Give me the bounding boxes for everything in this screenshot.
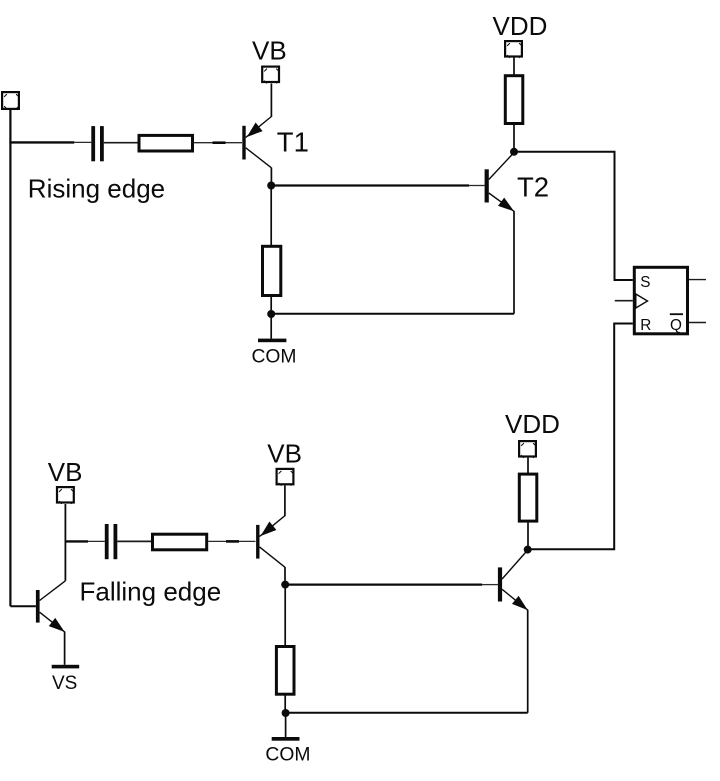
resistor R3 (vertical, VDD top) bbox=[505, 76, 523, 124]
wire node B to T2 emitter leg bbox=[271, 313, 514, 315]
svg-text:COM: COM bbox=[252, 346, 297, 367]
wire Q3 collector down to node D bbox=[284, 567, 286, 585]
wire latch R input from node F (left then down then left) bbox=[528, 324, 633, 550]
wire node D to Q5 base bbox=[285, 583, 482, 585]
svg-text:VB: VB bbox=[267, 438, 302, 468]
latch U1 (SR flip-flop box) bbox=[634, 267, 687, 334]
terminal VDD (bottom) bbox=[519, 441, 536, 458]
wire VB node to capacitor C2 bbox=[65, 540, 88, 542]
svg-text:Q: Q bbox=[670, 317, 682, 334]
wire C2 to R4 bbox=[117, 540, 151, 542]
svg-text:S: S bbox=[640, 274, 650, 291]
node D (junction below Q3) bbox=[281, 581, 289, 589]
svg-text:VB: VB bbox=[252, 36, 287, 66]
node C (junction at T2 collector / VDD resistor) bbox=[510, 148, 518, 156]
wire Q5 emitter down to node E rail bbox=[527, 610, 529, 713]
resistor R5 (vertical, falling edge to COM) bbox=[276, 647, 294, 695]
wire node E down to ground bbox=[285, 713, 287, 737]
resistor R1 (horizontal, rising edge) bbox=[139, 135, 193, 151]
wire node A down to R2 bbox=[270, 186, 272, 246]
wire R6 to node F bbox=[527, 523, 529, 550]
svg-text:T1: T1 bbox=[277, 126, 309, 157]
wire Q4 emitter down to VS ground bbox=[64, 632, 66, 665]
transistor Q5 (NPN, bottom right) bbox=[498, 550, 528, 610]
svg-text:VDD: VDD bbox=[493, 11, 548, 41]
transistor Q3 (PNP, falling edge) bbox=[256, 516, 285, 568]
terminal VDD (top) bbox=[505, 41, 522, 58]
wire T1 collector down to node A bbox=[270, 168, 272, 186]
svg-text:COM: COM bbox=[265, 745, 310, 766]
wire output stub Q (top) bbox=[689, 279, 706, 281]
wire node E to Q5 emitter leg bbox=[286, 712, 528, 714]
wire node C to latch S input (right then down then right) bbox=[514, 152, 633, 280]
resistor R4 (horizontal, falling edge) bbox=[153, 534, 207, 550]
transistor T1 (PNP) bbox=[242, 117, 271, 168]
wire VDD terminal to R6 bbox=[527, 458, 529, 473]
wire node A to T2 base bbox=[271, 184, 469, 186]
node A (junction below T1) bbox=[267, 182, 275, 190]
capacitor C2 bbox=[105, 524, 118, 559]
wire node B down to ground bbox=[270, 314, 272, 339]
wire R5 to node E bbox=[284, 694, 286, 713]
wire T1 emitter up to VB terminal bbox=[270, 84, 272, 117]
ground COM (falling edge) bbox=[272, 737, 300, 741]
svg-text:T2: T2 bbox=[517, 172, 549, 203]
resistor R2 (vertical, to COM) bbox=[263, 246, 281, 295]
wire R1 to T1 base bbox=[194, 142, 242, 144]
wire C1 to R1 bbox=[104, 142, 138, 144]
wire base of Q4 from long vertical bbox=[10, 605, 36, 607]
wire VB terminal down to Q4 collector bbox=[64, 504, 66, 581]
svg-text:VB: VB bbox=[48, 457, 83, 487]
capacitor C1 bbox=[91, 126, 104, 161]
wire T2 emitter down to node B rail bbox=[513, 211, 515, 314]
svg-text:VDD: VDD bbox=[505, 409, 560, 439]
node B (junction above COM) bbox=[267, 310, 275, 318]
wire node D down to R5 bbox=[284, 585, 286, 646]
terminal VB (falling edge, right) bbox=[277, 469, 294, 486]
wire clock stub bbox=[615, 300, 633, 302]
svg-text:R: R bbox=[640, 317, 651, 334]
svg-text:Rising edge: Rising edge bbox=[28, 173, 165, 203]
wire VDD terminal to R3 bbox=[513, 58, 515, 76]
wire output stub Qbar (bottom) bbox=[689, 322, 706, 324]
wire long vertical from input down to falling-edge transistor base bbox=[9, 110, 11, 606]
terminal IN (input port, top left) bbox=[2, 92, 19, 109]
svg-text:Falling edge: Falling edge bbox=[80, 576, 222, 606]
wire R2 to node B bbox=[270, 296, 272, 315]
node E (junction above COM, falling edge) bbox=[282, 709, 290, 717]
node F (junction at Q5 collector / VDD resistor) bbox=[524, 546, 532, 554]
ground COM (rising edge) bbox=[258, 339, 286, 343]
terminal VB (falling edge, left) bbox=[57, 487, 74, 504]
wire R3 to node C bbox=[513, 125, 515, 152]
ground VS bbox=[52, 665, 79, 669]
clock input triangle bbox=[636, 294, 648, 308]
wire Q3 emitter up to VB terminal bbox=[284, 486, 286, 517]
resistor R6 (vertical, VDD bottom) bbox=[519, 474, 537, 521]
terminal VB (top, for T1) bbox=[262, 67, 279, 84]
transistor T2 (NPN) bbox=[485, 153, 514, 212]
svg-text:VS: VS bbox=[52, 673, 77, 694]
wire input to capacitor C1 bbox=[9, 141, 74, 143]
wire R4 to Q3 base bbox=[208, 540, 255, 542]
transistor Q4 (NPN, lower left) bbox=[36, 581, 66, 632]
